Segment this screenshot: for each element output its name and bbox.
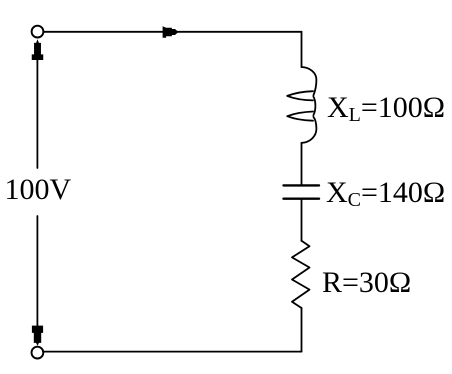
label 100V : source voltage (5, 173, 72, 207)
resistor R : zigzag (292, 241, 310, 308)
wire : right vertical, corner down to inductor top (301, 32, 303, 67)
label R=30ohm : resistor value (322, 266, 411, 300)
label XL=100ohm : inductor value (327, 91, 445, 127)
capacitor XC : top plate (284, 184, 320, 186)
wire : top horizontal from terminal to right corner (43, 31, 301, 33)
arrow : voltage arrow pointing down (above bottom terminal) (32, 326, 43, 346)
arrow : current direction on top wire (163, 26, 179, 38)
node B : bottom-left source terminal circle (32, 347, 44, 359)
inductor XL (loop-style coil) (287, 67, 316, 143)
label XC=140ohm : capacitor value (326, 176, 445, 212)
wire : resistor bottom to bottom-right corner (301, 308, 303, 352)
wire : capacitor bottom plate to resistor top (301, 200, 303, 241)
wire : inductor bottom to capacitor top plate (301, 143, 303, 184)
wire : left vertical upper segment (source line) (36, 52, 38, 168)
capacitor XC : bottom plate (284, 197, 320, 199)
wire : bottom horizontal back to source (43, 351, 301, 353)
arrow : voltage arrow pointing up (below top terminal) (32, 39, 44, 60)
wire : left vertical lower segment (source line) (36, 216, 38, 335)
node A : top-left source terminal circle (32, 26, 44, 38)
